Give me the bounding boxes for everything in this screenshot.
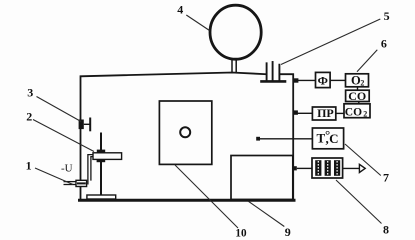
- svg-text:5: 5: [384, 9, 390, 23]
- svg-text:9: 9: [285, 225, 291, 239]
- svg-text:С: С: [329, 131, 338, 146]
- svg-text:-U: -U: [61, 163, 73, 175]
- svg-text:Ф: Ф: [318, 74, 328, 88]
- svg-text:7: 7: [383, 170, 389, 184]
- svg-text:10: 10: [235, 228, 247, 240]
- svg-text:8: 8: [383, 222, 389, 236]
- svg-text:CO: CO: [348, 89, 366, 103]
- svg-text:1: 1: [26, 159, 32, 173]
- svg-text:2: 2: [26, 110, 32, 124]
- svg-text:3: 3: [27, 86, 33, 100]
- svg-text:2: 2: [360, 79, 364, 88]
- svg-text:CO: CO: [345, 107, 362, 119]
- svg-text:4: 4: [177, 2, 183, 16]
- svg-text:ПР: ПР: [317, 106, 334, 120]
- svg-text:6: 6: [381, 37, 387, 51]
- svg-text:2: 2: [363, 110, 367, 119]
